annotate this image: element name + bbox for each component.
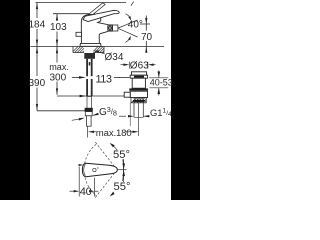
svg-text:G3/8: G3/8 (99, 105, 117, 118)
svg-text:55°: 55° (113, 149, 130, 161)
svg-text:55°: 55° (114, 181, 131, 193)
svg-text:max.180: max.180 (96, 128, 132, 139)
svg-text:113: 113 (96, 74, 112, 86)
svg-text:390: 390 (29, 78, 46, 89)
svg-text:max.: max. (49, 62, 69, 72)
svg-text:40-53: 40-53 (150, 77, 173, 87)
svg-text:Ø63: Ø63 (130, 61, 149, 72)
svg-text:70: 70 (141, 32, 153, 43)
svg-text:40: 40 (80, 186, 92, 198)
svg-text:184: 184 (29, 20, 46, 31)
svg-text:300: 300 (50, 73, 67, 84)
svg-text:Ø34: Ø34 (105, 52, 124, 63)
svg-text:G11/4: G11/4 (150, 107, 172, 118)
svg-text:103: 103 (50, 22, 67, 33)
